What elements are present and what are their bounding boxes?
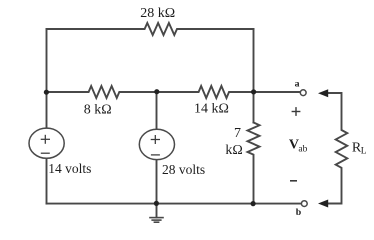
svg-text:7: 7 [234, 126, 241, 141]
svg-text:ab: ab [298, 144, 307, 154]
svg-text:L: L [361, 146, 367, 156]
svg-text:kΩ: kΩ [225, 143, 242, 158]
svg-text:28 volts: 28 volts [162, 162, 205, 177]
svg-text:a: a [295, 79, 300, 90]
svg-text:8 kΩ: 8 kΩ [84, 103, 112, 118]
svg-text:b: b [296, 207, 302, 218]
svg-text:14 kΩ: 14 kΩ [194, 101, 229, 116]
svg-text:28 kΩ: 28 kΩ [140, 6, 175, 21]
svg-text:14 volts: 14 volts [48, 161, 91, 176]
